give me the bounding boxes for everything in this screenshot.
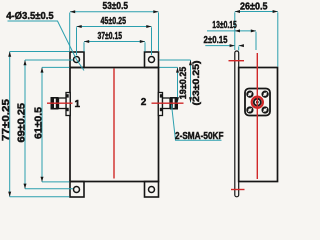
- centerline vertical front view: [113, 69, 115, 179]
- dimension 45±0.25: [77, 27, 152, 56]
- leader 2-SMA-50KF: [172, 105, 222, 141]
- connector J1 flange: [66, 93, 70, 116]
- side view body: [239, 68, 278, 182]
- dimension 13±0.15: [207, 31, 256, 50]
- svg-text:2±0.15: 2±0.15: [204, 35, 228, 46]
- flange screw holes: [247, 92, 267, 113]
- svg-text:2-SMA-50KF: 2-SMA-50KF: [175, 131, 224, 142]
- tab bottom-right: [145, 182, 159, 198]
- extension line body top right: [160, 66, 178, 68]
- dimension 77±0.25: [10, 52, 70, 197]
- dimension 69±0.25: [25, 60, 73, 189]
- centerline connector J2: [152, 102, 184, 104]
- front view body: [70, 68, 159, 182]
- dimension 53±0.5: [70, 12, 159, 51]
- connector J2 flange: [158, 93, 162, 116]
- svg-text:45±0.25: 45±0.25: [101, 16, 127, 27]
- svg-text:2: 2: [141, 97, 147, 108]
- dimension 37±0.15: [84, 42, 145, 52]
- centerline vertical side view: [256, 53, 258, 179]
- extension line hole center right: [160, 59, 191, 61]
- dimension 19±0.25: [177, 67, 179, 102]
- SMA flange face: [245, 89, 270, 116]
- SMA center conductor: [252, 97, 263, 108]
- hole top-right: [149, 57, 155, 63]
- dimension 2±0.15: [205, 46, 242, 51]
- svg-text:19±0.25: 19±0.25: [178, 67, 188, 100]
- svg-text:13±0.15: 13±0.15: [212, 20, 237, 31]
- hole bottom-left: [74, 187, 80, 193]
- tab top-left: [70, 52, 84, 68]
- tab bottom-left: [70, 182, 84, 198]
- hole top-left: [74, 57, 80, 63]
- side view mounting plate: [235, 51, 239, 197]
- svg-text:(23±0.25): (23±0.25): [191, 61, 201, 106]
- hole bottom-right: [149, 187, 155, 193]
- dimension (23±0.25): [190, 60, 192, 103]
- connector J1 nut: [51, 97, 59, 110]
- centerline connector J1: [47, 102, 73, 104]
- svg-text:53±0.5: 53±0.5: [103, 1, 129, 12]
- connector J1 barrel: [59, 98, 67, 109]
- centerline top hole side view: [229, 60, 245, 62]
- connector J2 screws: [160, 94, 163, 97]
- dimension 26±0.5: [235, 12, 278, 67]
- svg-text:77±0.25: 77±0.25: [1, 98, 12, 141]
- svg-text:4-Ø3.5±0.5: 4-Ø3.5±0.5: [6, 11, 54, 22]
- svg-text:37±0.15: 37±0.15: [98, 31, 123, 42]
- svg-text:1: 1: [75, 99, 81, 110]
- dimension 61±0.5: [42, 67, 70, 181]
- svg-text:61±0.5: 61±0.5: [34, 107, 45, 139]
- centerline bottom hole side view: [231, 189, 245, 191]
- svg-text:26±0.5: 26±0.5: [240, 2, 268, 13]
- tab top-right: [145, 52, 159, 68]
- connector J2 nut: [170, 97, 178, 110]
- connector J1 screws: [66, 94, 69, 97]
- svg-text:69±0.25: 69±0.25: [17, 103, 28, 143]
- connector J2 barrel: [163, 98, 171, 109]
